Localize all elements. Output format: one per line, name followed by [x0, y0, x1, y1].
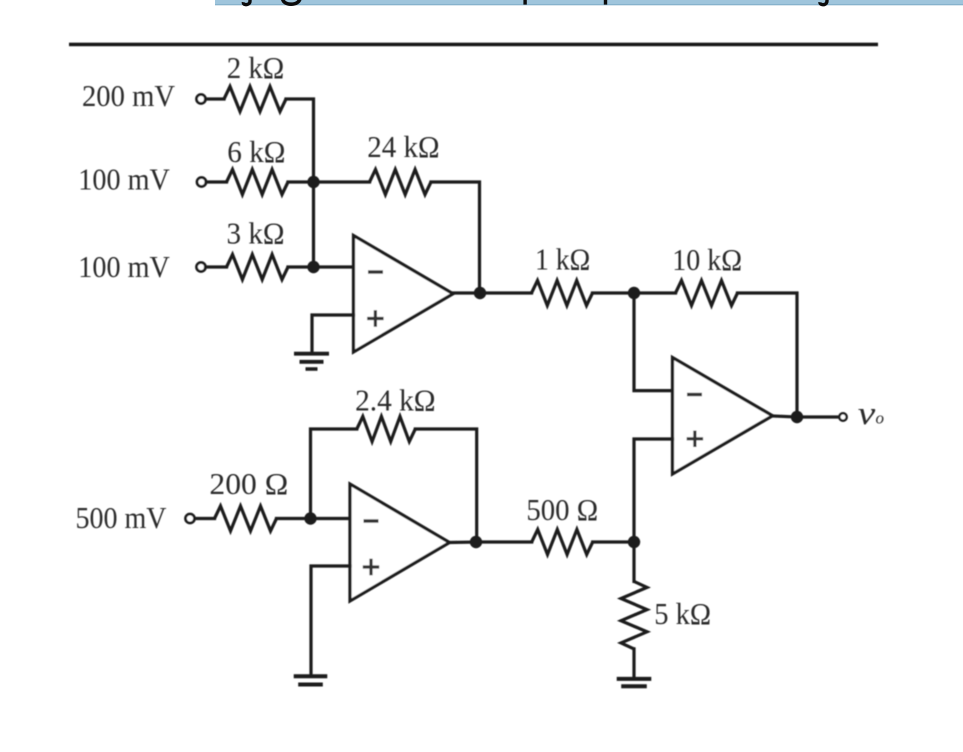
stem of letter q in title: [604, 0, 607, 5]
svg-text:o: o: [876, 409, 885, 428]
svg-text:2 kΩ: 2 kΩ: [227, 50, 285, 85]
svg-text:500 Ω: 500 Ω: [526, 492, 598, 527]
wire source3 to R 3k: [206, 265, 227, 268]
node G (inverting input U2): [304, 512, 316, 524]
svg-text:24 kΩ: 24 kΩ: [367, 129, 439, 164]
resistor 6 kOhm: [227, 170, 289, 195]
wire source4 to R 200: [195, 517, 215, 520]
resistor 2.4 kOhm: [357, 417, 416, 442]
resistor 500 Ohm: [532, 530, 593, 555]
resistor 24 kOhm: [370, 170, 432, 195]
wire R 3k to node B: [288, 265, 314, 268]
descender of letter j in title: [243, 0, 250, 5]
svg-text:v: v: [858, 396, 876, 432]
wire output node to vo terminal: [797, 415, 839, 418]
svg-text:200 mV: 200 mV: [82, 78, 176, 113]
wire U2 noninverting input to ground: [311, 566, 350, 675]
wire R 24k down to U1 output node: [431, 182, 480, 293]
ground G1 (U1 +): [294, 354, 329, 369]
wire node A to R 24k: [314, 180, 370, 183]
svg-text:100 mV: 100 mV: [78, 162, 170, 197]
node C (U1 output): [474, 287, 486, 299]
wire U3 apex to output node: [773, 416, 798, 417]
op-amp U2: [350, 484, 450, 601]
terminal 100 mV (bottom): [197, 263, 206, 272]
wire source2 to R 6k: [206, 180, 227, 183]
highlight band (cut-off highlighted title text): [215, 0, 963, 4]
node E (U3 output): [791, 411, 803, 423]
wire node H to R 500: [476, 540, 532, 543]
svg-text:10 kΩ: 10 kΩ: [672, 242, 742, 277]
svg-text:3 kΩ: 3 kΩ: [227, 216, 285, 251]
wire bus node A to node B: [312, 182, 315, 267]
horizontal rule: [69, 43, 878, 47]
svg-text:1 kΩ: 1 kΩ: [535, 242, 590, 277]
wire R 1k to node D: [593, 291, 635, 294]
node A (summing node row2): [307, 176, 319, 188]
resistor 200 Ohm: [215, 506, 277, 531]
resistor 10 kOhm: [676, 281, 738, 306]
ground G2 (U2 +): [294, 676, 328, 684]
wire source1 to R 2k: [206, 97, 225, 100]
wire R 500 to node F: [593, 540, 634, 543]
wire R 5k to ground: [632, 649, 635, 677]
U3 minus sign: [687, 393, 702, 396]
node H (U2 output): [470, 536, 482, 548]
wire node B to U1 inverting input: [314, 265, 354, 268]
wire R 200 to node G: [277, 517, 311, 520]
descender of letter g in title: [283, 0, 301, 4]
resistor 3 kOhm: [227, 255, 289, 280]
node F: [628, 536, 640, 548]
svg-text:500 mV: 500 mV: [76, 500, 168, 535]
wire R 2.4k down to U2 output node: [415, 429, 476, 542]
descender of letter j in title (second): [820, 0, 827, 5]
wire U3 noninverting input to node F: [634, 439, 673, 542]
resistor 2 kOhm: [224, 87, 286, 112]
op-amp U3: [673, 358, 773, 475]
wire U2 apex to output node: [450, 540, 477, 544]
wire R 6k to node A: [288, 180, 314, 183]
svg-text:100 mV: 100 mV: [78, 249, 170, 284]
wire node C to R 1k: [480, 291, 532, 294]
wire node F to R 5k: [632, 542, 635, 581]
terminal 500 mV: [186, 514, 195, 523]
wire U1 noninverting input to ground: [312, 315, 354, 353]
resistor 5 kOhm (vertical): [621, 581, 647, 649]
wire node D to U3 inverting input: [634, 293, 673, 391]
U2 minus sign: [364, 519, 379, 522]
wire U1 output to node C: [453, 291, 480, 294]
wire R 2k to bus corner, down to node A: [286, 99, 314, 182]
node D: [628, 287, 640, 299]
U3 plus sign: [687, 431, 703, 447]
svg-text:2.4 kΩ: 2.4 kΩ: [355, 383, 436, 418]
terminal vo: [839, 413, 846, 420]
wire node G up to R 2.4k: [311, 429, 357, 519]
wire R 10k down to U3 output node: [738, 293, 798, 417]
terminal 100 mV (middle): [197, 178, 206, 187]
U2 plus sign: [363, 559, 379, 575]
svg-text:200 Ω: 200 Ω: [209, 466, 288, 501]
op-amp U1: [354, 236, 454, 353]
svg-text:5 kΩ: 5 kΩ: [654, 596, 711, 631]
U1 plus sign: [367, 310, 383, 326]
resistor 1 kOhm: [532, 281, 593, 306]
wire node D to R 10k: [634, 291, 676, 294]
stem of letter p in title: [523, 0, 526, 5]
node B (inverting input U1): [307, 261, 319, 273]
ground G3 (R 5k): [617, 679, 652, 686]
U1 minus sign: [368, 270, 383, 273]
wire node G to U2 inverting input: [311, 517, 351, 520]
svg-text:6 kΩ: 6 kΩ: [227, 134, 285, 169]
terminal 200 mV: [197, 95, 206, 104]
